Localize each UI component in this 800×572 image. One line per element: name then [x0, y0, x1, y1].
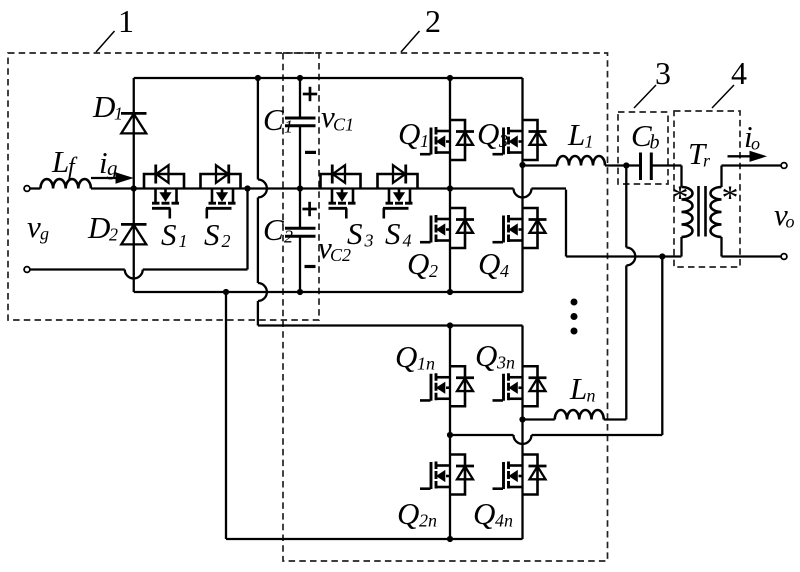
node Q3n/Q4n output junction [519, 416, 525, 422]
svg-text:L: L [51, 144, 69, 179]
svg-text:b: b [650, 132, 660, 154]
transistor Q4 [523, 208, 538, 248]
svg-text:3: 3 [364, 231, 374, 251]
wire Lf to node A [91, 187, 134, 189]
bridge leg Q3/Q4 vertical [521, 78, 523, 292]
wire hop: lower mid rail under Q3n/Q4n leg [514, 435, 532, 444]
node Q2 bottom junction [447, 289, 453, 295]
svg-text:2: 2 [222, 231, 231, 251]
svg-text:Q: Q [407, 246, 429, 281]
svg-text:L: L [567, 117, 585, 152]
svg-text:*: * [672, 180, 689, 217]
transistor Q3n [523, 366, 538, 406]
svg-text:2n: 2n [419, 511, 437, 531]
node Q1/Q2 mid junction [447, 185, 453, 191]
ac bus vertical x=626 [625, 166, 627, 248]
svg-text:1: 1 [284, 117, 293, 137]
diode D1 [133, 78, 135, 189]
capacitor C1 [299, 78, 301, 118]
svg-text:o: o [786, 212, 795, 232]
node top rail x=258 junction [255, 75, 261, 81]
svg-text:4: 4 [500, 261, 509, 281]
svg-text:2: 2 [425, 3, 441, 39]
svg-text:3: 3 [498, 131, 508, 151]
node: input terminal vg- [24, 267, 30, 273]
svg-text:S: S [385, 216, 401, 251]
transistor Q1 [450, 120, 465, 160]
svg-text:2: 2 [429, 261, 438, 281]
svg-text:S: S [161, 217, 177, 252]
wire bus tie to lower bridge top rail [258, 324, 523, 326]
dashed box 1 (input rectifier stage) [8, 53, 319, 320]
node Cb input junction [623, 162, 629, 168]
current arrow ig [91, 177, 117, 179]
wire lower bridge output to Ln [523, 418, 555, 420]
svg-text:n: n [587, 386, 596, 406]
svg-text:D: D [87, 210, 110, 245]
inductor Lf [41, 179, 91, 188]
wire Ln to ac bus [604, 418, 627, 420]
svg-text:Q: Q [478, 246, 500, 281]
svg-text:o: o [751, 134, 760, 154]
ellipsis dots (repeated modules) [571, 299, 578, 306]
node output terminal vo+ [781, 163, 787, 169]
svg-text:g: g [107, 156, 118, 180]
svg-text:4n: 4n [495, 511, 513, 531]
svg-text:v: v [27, 209, 41, 244]
bus tie vertical x=258 [257, 78, 259, 180]
top rail [134, 77, 523, 79]
node Q1n/Q2n mid junction [447, 432, 453, 438]
node C1-C2 mid junction [297, 185, 303, 191]
svg-text:r: r [703, 151, 711, 171]
svg-text:S: S [204, 217, 220, 252]
wire L1 to Cb node [605, 164, 641, 166]
wire Cb to transformer [651, 164, 681, 166]
svg-text:Q: Q [473, 496, 495, 531]
switch S3 [321, 174, 361, 189]
switch S2 [201, 174, 241, 189]
inductor L1 [557, 156, 605, 166]
svg-text:2: 2 [109, 225, 118, 245]
node C2 bottom junction [297, 289, 303, 295]
transistor Q1n [450, 366, 465, 406]
dashed box 3 (blocking capacitor) [618, 112, 668, 184]
polarity + of C1 [303, 93, 317, 96]
svg-text:1n: 1n [417, 354, 435, 374]
svg-text:2: 2 [284, 227, 293, 247]
svg-text:C1: C1 [333, 115, 354, 135]
lower mid rail [450, 434, 514, 436]
return bus vertical x=662 [661, 257, 663, 436]
svg-text:g: g [40, 224, 49, 244]
transformer Tr primary winding [682, 187, 693, 237]
svg-text:1: 1 [179, 231, 188, 251]
bottom rail [134, 291, 523, 293]
lower mid rail to return bus [532, 434, 663, 436]
wire hop: mid rail under Q3/Q4 leg [514, 189, 532, 198]
svg-text:C: C [263, 102, 284, 137]
svg-text:1: 1 [118, 3, 134, 39]
wire mid rail to corner [532, 187, 567, 189]
bridge leg Q1/Q2 vertical [449, 78, 451, 292]
inductor Ln [555, 410, 604, 420]
node Q3/Q4 output junction [519, 162, 525, 168]
dashed box 4 (transformer stage) [674, 111, 740, 267]
current arrow io [728, 155, 752, 157]
transistor Q3 [523, 120, 538, 160]
svg-text:3n: 3n [496, 353, 515, 373]
svg-text:1: 1 [114, 104, 123, 124]
svg-text:3: 3 [655, 55, 671, 91]
polarity + of C2 [302, 208, 316, 211]
bridge leg Q1n/Q2n vertical [449, 326, 451, 540]
node bottom rail x=226 junction [223, 289, 229, 295]
polarity - of C1 [305, 151, 316, 154]
transistor Q2n [450, 455, 465, 495]
negative bus vertical x=226 [225, 292, 227, 539]
node output terminal vo- [781, 254, 787, 260]
wire vg+ to Lf [30, 187, 41, 189]
node Q1 top junction [447, 75, 453, 81]
wire secondary to vo+ terminal [722, 164, 785, 166]
wire hop: x=258 over bottom rail [258, 283, 267, 301]
polarity - of C2 [305, 265, 316, 268]
node lower top rail junction [447, 322, 453, 328]
svg-text:1: 1 [420, 131, 429, 151]
svg-text:D: D [92, 89, 115, 124]
wire mid rail A to S-switches [134, 187, 514, 189]
diode D2 [133, 189, 135, 293]
svg-text:*: * [722, 180, 739, 217]
transformer Tr secondary winding [720, 166, 722, 188]
node S2 output junction [244, 185, 250, 191]
svg-text:1: 1 [585, 132, 594, 152]
svg-text:Q: Q [475, 338, 497, 373]
node: input terminal vg+ [24, 186, 30, 192]
switch S4 [378, 174, 418, 189]
wire hop: vg- under D2 leg [125, 270, 143, 279]
wire return path y=256.5 [566, 255, 682, 257]
wire vg- to mid rail [143, 268, 248, 270]
wire hop: x=626 over return wire [626, 248, 635, 266]
svg-text:C: C [263, 212, 284, 247]
transistor Q2 [450, 208, 465, 248]
svg-text:L: L [569, 371, 587, 406]
capacitor C2 [299, 189, 301, 229]
bridge leg Q3n/Q4n vertical [521, 326, 523, 540]
wire hop: x=258 over mid rail [258, 180, 267, 198]
dashed box 2 (switched-capacitor bridge stage) [283, 53, 608, 561]
svg-text:S: S [347, 216, 363, 251]
transistor Q4n [523, 455, 538, 495]
capacitor Cb [639, 153, 642, 181]
node A junction dot [131, 185, 137, 191]
svg-text:Q: Q [477, 116, 499, 151]
wire vg- run [30, 268, 125, 270]
switch S1 [144, 174, 184, 189]
transformer Tr core [697, 186, 700, 237]
svg-text:Q: Q [395, 339, 417, 374]
node return junction [659, 253, 665, 259]
svg-text:Q: Q [398, 116, 420, 151]
node Q2n bottom junction [447, 536, 453, 542]
node C1 top junction [297, 75, 303, 81]
wire bridge output to L1 [523, 164, 558, 166]
svg-text:Q: Q [397, 496, 419, 531]
wire secondary to vo- terminal [722, 255, 785, 257]
